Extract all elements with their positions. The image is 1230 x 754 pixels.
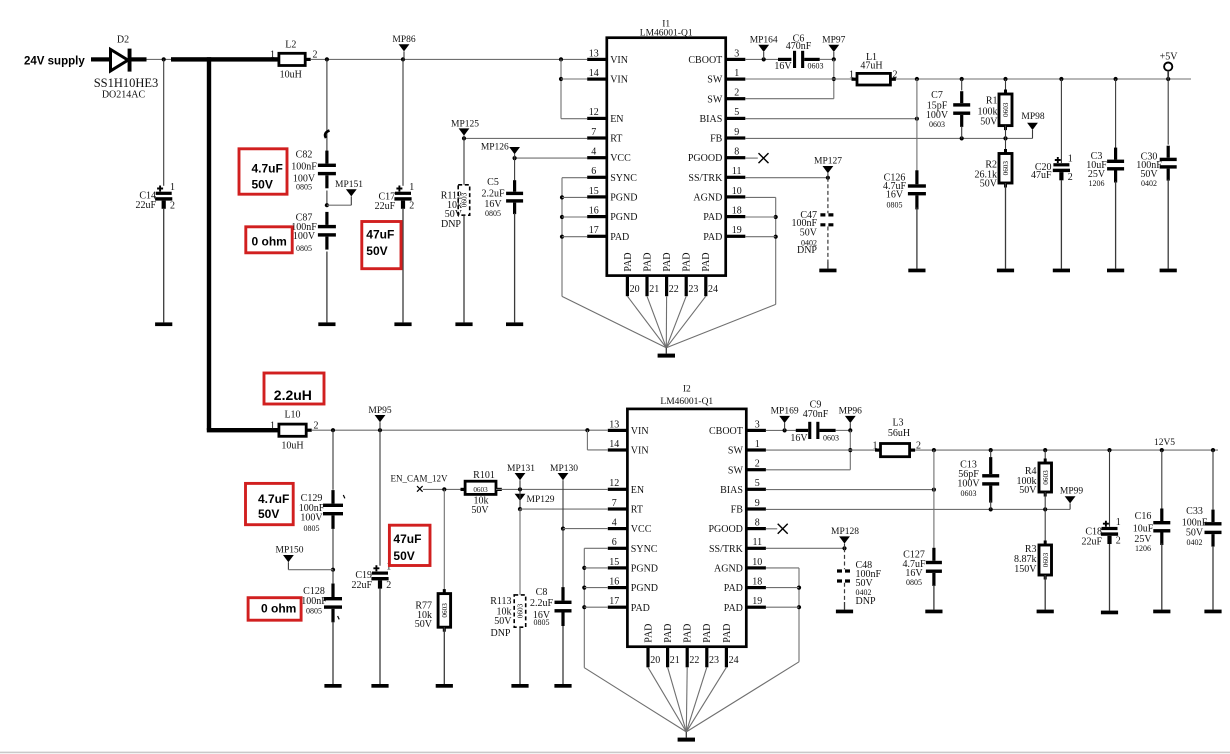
svg-text:C18: C18 xyxy=(1085,526,1102,537)
svg-text:6: 6 xyxy=(591,166,596,177)
svg-text:56uH: 56uH xyxy=(888,428,910,439)
svg-text:50V: 50V xyxy=(800,227,818,238)
svg-text:EN: EN xyxy=(610,114,623,125)
svg-text:PAD: PAD xyxy=(683,624,694,643)
svg-text:0603: 0603 xyxy=(1002,102,1010,117)
svg-text:MP129: MP129 xyxy=(527,495,555,505)
svg-text:SS1H10HE3: SS1H10HE3 xyxy=(94,76,159,90)
svg-text:3: 3 xyxy=(734,48,739,59)
svg-text:0805: 0805 xyxy=(906,578,922,587)
svg-text:RT: RT xyxy=(631,505,643,516)
svg-text:14: 14 xyxy=(589,68,599,79)
svg-text:PAD: PAD xyxy=(724,583,743,594)
svg-text:1: 1 xyxy=(849,69,854,80)
svg-text:50V: 50V xyxy=(366,244,387,258)
svg-text:50V: 50V xyxy=(258,507,279,521)
svg-text:1: 1 xyxy=(170,182,175,193)
svg-text:DNP: DNP xyxy=(856,596,876,607)
svg-text:R101: R101 xyxy=(473,470,495,481)
svg-text:0805: 0805 xyxy=(534,618,550,627)
svg-text:100nF: 100nF xyxy=(301,596,327,607)
svg-text:1: 1 xyxy=(270,50,275,61)
svg-text:PAD: PAD xyxy=(610,232,629,243)
svg-text:23: 23 xyxy=(709,655,719,666)
svg-text:24: 24 xyxy=(729,655,739,666)
svg-text:0603: 0603 xyxy=(517,603,525,618)
svg-text:15: 15 xyxy=(609,557,619,568)
svg-text:MP128: MP128 xyxy=(831,527,859,537)
svg-text:MP125: MP125 xyxy=(451,119,479,129)
svg-text:VIN: VIN xyxy=(631,426,649,437)
svg-text:100V: 100V xyxy=(300,513,323,524)
svg-text:1: 1 xyxy=(873,441,878,452)
svg-text:50V: 50V xyxy=(252,178,273,192)
svg-text:D2: D2 xyxy=(117,35,129,46)
svg-text:50V: 50V xyxy=(415,619,433,630)
svg-text:0805: 0805 xyxy=(304,524,320,533)
svg-text:2.2uH: 2.2uH xyxy=(274,387,312,403)
svg-text:0 ohm: 0 ohm xyxy=(261,601,296,615)
svg-text:10uH: 10uH xyxy=(280,69,302,80)
svg-text:10uH: 10uH xyxy=(281,441,303,452)
svg-text:470nF: 470nF xyxy=(803,409,829,420)
svg-text:DNP: DNP xyxy=(797,245,817,256)
svg-text:47uF: 47uF xyxy=(393,532,421,546)
svg-text:C82: C82 xyxy=(296,150,313,161)
svg-text:2: 2 xyxy=(1068,172,1073,183)
svg-text:23: 23 xyxy=(688,284,698,295)
svg-text:150V: 150V xyxy=(1014,564,1037,575)
svg-text:BIAS: BIAS xyxy=(720,485,743,496)
svg-text:RT: RT xyxy=(610,134,622,145)
svg-text:PAD: PAD xyxy=(662,253,673,272)
svg-text:22uF: 22uF xyxy=(1081,537,1102,548)
svg-text:21: 21 xyxy=(670,655,680,666)
svg-text:MP97: MP97 xyxy=(822,36,845,46)
svg-text:L10: L10 xyxy=(284,410,300,421)
svg-text:50V: 50V xyxy=(393,549,414,563)
svg-text:47uF: 47uF xyxy=(366,227,394,241)
svg-text:DO214AC: DO214AC xyxy=(102,89,146,100)
svg-text:50V: 50V xyxy=(1186,528,1204,539)
svg-text:7: 7 xyxy=(612,498,617,509)
svg-text:AGND: AGND xyxy=(693,193,722,204)
svg-text:4: 4 xyxy=(591,147,596,158)
svg-text:22: 22 xyxy=(669,284,679,295)
svg-text:50V: 50V xyxy=(1019,485,1037,496)
svg-text:10: 10 xyxy=(752,557,762,568)
svg-text:DNP: DNP xyxy=(490,628,510,639)
svg-text:CBOOT: CBOOT xyxy=(709,426,743,437)
svg-text:2: 2 xyxy=(170,200,175,211)
svg-text:16V: 16V xyxy=(886,190,904,201)
svg-text:5: 5 xyxy=(734,107,739,118)
svg-text:PGOOD: PGOOD xyxy=(688,153,722,164)
svg-text:PAD: PAD xyxy=(703,212,722,223)
svg-text:SW: SW xyxy=(728,465,744,476)
svg-text:0603: 0603 xyxy=(1042,552,1050,567)
svg-text:PAD: PAD xyxy=(701,253,712,272)
svg-text:MP169: MP169 xyxy=(771,407,799,417)
svg-text:1: 1 xyxy=(270,421,275,432)
svg-text:21: 21 xyxy=(649,284,659,295)
svg-text:0603: 0603 xyxy=(1002,161,1010,176)
svg-text:PGND: PGND xyxy=(610,193,637,204)
svg-text:16V: 16V xyxy=(790,433,808,444)
svg-text:C5: C5 xyxy=(487,177,499,188)
svg-text:1: 1 xyxy=(409,182,414,193)
svg-text:1: 1 xyxy=(755,439,760,450)
svg-text:0805: 0805 xyxy=(306,606,322,615)
svg-text:4.7uF: 4.7uF xyxy=(252,162,283,176)
svg-text:12: 12 xyxy=(609,478,619,489)
svg-text:12V5: 12V5 xyxy=(1154,438,1175,448)
svg-text:VCC: VCC xyxy=(631,524,652,535)
svg-text:LM46001-Q1: LM46001-Q1 xyxy=(640,28,693,38)
svg-text:MP131: MP131 xyxy=(507,464,535,474)
svg-text:VIN: VIN xyxy=(610,75,628,86)
svg-text:LM46001-Q1: LM46001-Q1 xyxy=(660,397,713,407)
svg-text:50V: 50V xyxy=(980,179,998,190)
svg-text:100nF: 100nF xyxy=(291,161,317,172)
svg-text:50V: 50V xyxy=(980,116,998,127)
svg-text:SS/TRK: SS/TRK xyxy=(688,173,723,184)
svg-text:13: 13 xyxy=(589,48,599,59)
svg-text:17: 17 xyxy=(609,596,619,607)
svg-text:PAD: PAD xyxy=(724,603,743,614)
svg-text:10uF: 10uF xyxy=(1133,524,1154,535)
svg-text:15: 15 xyxy=(589,186,599,197)
svg-text:I2: I2 xyxy=(683,385,691,395)
svg-text:C7: C7 xyxy=(931,90,943,101)
svg-text:22uF: 22uF xyxy=(351,580,372,591)
svg-text:EN: EN xyxy=(631,485,644,496)
svg-text:14: 14 xyxy=(609,439,619,450)
svg-text:PAD: PAD xyxy=(702,624,713,643)
svg-text:18: 18 xyxy=(732,206,742,217)
svg-text:PAD: PAD xyxy=(703,232,722,243)
svg-text:9: 9 xyxy=(755,498,760,509)
svg-text:2: 2 xyxy=(409,200,414,211)
svg-text:PAD: PAD xyxy=(663,624,674,643)
svg-text:1: 1 xyxy=(1068,153,1073,164)
svg-text:C16: C16 xyxy=(1135,511,1152,522)
svg-text:11: 11 xyxy=(732,166,742,177)
svg-text:MP127: MP127 xyxy=(814,157,842,167)
svg-text:47uF: 47uF xyxy=(1031,170,1052,181)
svg-text:EN_CAM_12V: EN_CAM_12V xyxy=(390,474,448,484)
svg-text:0402: 0402 xyxy=(1141,179,1157,188)
svg-text:2: 2 xyxy=(755,459,760,470)
svg-text:R113: R113 xyxy=(490,596,511,607)
svg-text:MP164: MP164 xyxy=(750,36,778,46)
svg-text:MP150: MP150 xyxy=(276,546,304,556)
svg-text:20: 20 xyxy=(650,655,660,666)
svg-text:2: 2 xyxy=(734,88,739,99)
svg-text:PAD: PAD xyxy=(722,624,733,643)
svg-text:SYNC: SYNC xyxy=(610,173,637,184)
svg-text:MP98: MP98 xyxy=(1021,112,1044,122)
svg-text:FB: FB xyxy=(731,505,744,516)
svg-text:C33: C33 xyxy=(1186,506,1203,517)
svg-text:8: 8 xyxy=(734,147,739,158)
svg-text:SS/TRK: SS/TRK xyxy=(709,544,744,555)
svg-text:FB: FB xyxy=(710,134,723,145)
svg-text:19: 19 xyxy=(732,225,742,236)
svg-text:0603: 0603 xyxy=(1042,470,1050,485)
svg-text:MP99: MP99 xyxy=(1060,487,1083,497)
svg-text:2.2uF: 2.2uF xyxy=(530,598,554,609)
svg-text:1206: 1206 xyxy=(1089,179,1105,188)
svg-text:16V: 16V xyxy=(774,61,792,72)
svg-text:22: 22 xyxy=(689,655,699,666)
svg-text:16: 16 xyxy=(589,206,599,217)
svg-text:MP95: MP95 xyxy=(368,406,391,416)
svg-text:7: 7 xyxy=(591,127,596,138)
svg-text:PAD: PAD xyxy=(682,253,693,272)
svg-text:18: 18 xyxy=(752,577,762,588)
svg-text:MP130: MP130 xyxy=(550,464,578,474)
svg-text:19: 19 xyxy=(752,596,762,607)
svg-text:0603: 0603 xyxy=(961,489,977,498)
svg-text:9: 9 xyxy=(734,127,739,138)
svg-text:470nF: 470nF xyxy=(786,41,812,52)
svg-text:11: 11 xyxy=(752,537,762,548)
svg-text:4.7uF: 4.7uF xyxy=(258,492,289,506)
svg-text:2: 2 xyxy=(1116,536,1121,547)
svg-text:PGND: PGND xyxy=(610,212,637,223)
svg-text:12: 12 xyxy=(589,107,599,118)
svg-text:24V supply: 24V supply xyxy=(24,56,85,68)
svg-text:0603: 0603 xyxy=(929,120,945,129)
svg-text:PGND: PGND xyxy=(631,564,658,575)
svg-text:VIN: VIN xyxy=(631,446,649,457)
svg-text:MP126: MP126 xyxy=(481,143,509,153)
svg-text:100V: 100V xyxy=(293,231,316,242)
svg-text:0603: 0603 xyxy=(473,486,488,494)
svg-text:0805: 0805 xyxy=(296,183,312,192)
svg-text:SW: SW xyxy=(707,75,723,86)
svg-text:16: 16 xyxy=(609,577,619,588)
svg-text:SYNC: SYNC xyxy=(631,544,658,555)
svg-text:VIN: VIN xyxy=(610,55,628,66)
svg-text:8: 8 xyxy=(755,518,760,529)
svg-text:22uF: 22uF xyxy=(135,200,156,211)
svg-text:2: 2 xyxy=(386,580,391,591)
svg-text:3: 3 xyxy=(755,419,760,430)
svg-text:0805: 0805 xyxy=(296,244,312,253)
svg-text:6: 6 xyxy=(612,537,617,548)
svg-text:DNP: DNP xyxy=(441,219,461,230)
svg-text:50V: 50V xyxy=(471,505,489,516)
svg-text:10: 10 xyxy=(732,186,742,197)
svg-text:PAD: PAD xyxy=(643,624,654,643)
svg-text:0 ohm: 0 ohm xyxy=(252,234,287,248)
svg-text:2.2uF: 2.2uF xyxy=(481,189,505,200)
svg-text:MP96: MP96 xyxy=(839,407,862,417)
svg-text:1206: 1206 xyxy=(1135,544,1151,553)
svg-text:SW: SW xyxy=(728,446,744,457)
svg-text:SW: SW xyxy=(707,94,723,105)
svg-text:PAD: PAD xyxy=(642,253,653,272)
svg-text:L3: L3 xyxy=(892,417,903,428)
svg-text:+5V: +5V xyxy=(1160,51,1179,62)
svg-text:47uH: 47uH xyxy=(860,60,882,71)
svg-text:0603: 0603 xyxy=(823,433,839,442)
svg-text:C8: C8 xyxy=(536,587,548,598)
svg-text:PAD: PAD xyxy=(623,253,634,272)
svg-text:R1: R1 xyxy=(986,96,998,107)
svg-text:5: 5 xyxy=(755,478,760,489)
svg-text:0402: 0402 xyxy=(1187,538,1203,547)
svg-text:50V: 50V xyxy=(494,616,512,627)
svg-text:22uF: 22uF xyxy=(375,201,396,212)
svg-text:MP151: MP151 xyxy=(335,180,363,190)
svg-text:PGOOD: PGOOD xyxy=(708,524,742,535)
svg-text:BIAS: BIAS xyxy=(700,114,723,125)
svg-text:0805: 0805 xyxy=(887,201,903,210)
svg-text:17: 17 xyxy=(589,225,599,236)
svg-text:0603: 0603 xyxy=(441,603,449,618)
svg-text:1: 1 xyxy=(1116,517,1121,528)
svg-text:PGND: PGND xyxy=(631,583,658,594)
svg-text:AGND: AGND xyxy=(714,564,743,575)
svg-text:0805: 0805 xyxy=(485,209,501,218)
svg-text:CBOOT: CBOOT xyxy=(688,55,722,66)
svg-text:L2: L2 xyxy=(285,39,296,50)
svg-text:4: 4 xyxy=(612,518,617,529)
svg-text:0603: 0603 xyxy=(808,62,824,71)
svg-text:VCC: VCC xyxy=(610,153,631,164)
svg-text:PAD: PAD xyxy=(631,603,650,614)
svg-text:MP86: MP86 xyxy=(392,35,415,45)
svg-text:13: 13 xyxy=(609,419,619,430)
svg-text:20: 20 xyxy=(630,284,640,295)
svg-text:24: 24 xyxy=(708,284,718,295)
svg-text:1: 1 xyxy=(734,68,739,79)
